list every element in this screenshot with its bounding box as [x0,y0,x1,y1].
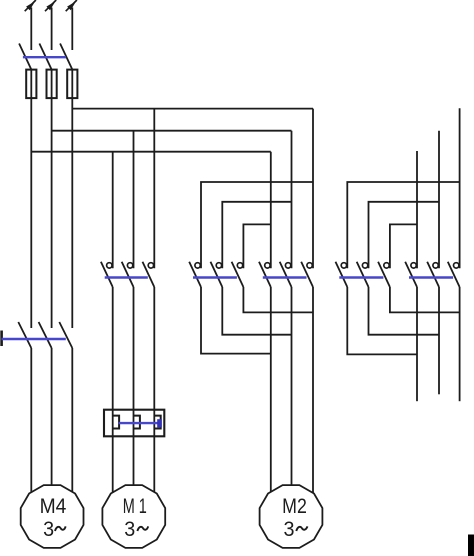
contactor contact K5 pole 1 [405,262,417,287]
thermal overload relay F4 box [104,410,164,437]
bus phase L1 horizontal [31,151,270,153]
contactor contact K2 pole 3 [232,262,244,287]
wire K5 feed stub 3 [459,108,461,268]
contactor contact K4 pole 3 [378,262,390,287]
supply arrow L1 [25,0,36,11]
disconnector QS0 pole 1 blade [19,44,31,70]
wire phase L2 vertical [51,70,53,328]
wire K2 feed bracket 1 [201,182,313,268]
wire L3 to switch QS0 [71,8,73,51]
contactor contact K2 pole 1 [189,262,201,287]
QS0 mechanical linkage [23,56,66,58]
wire F4 through 3 [153,410,155,437]
wire L2 to switch QS0 [51,8,53,51]
wire K2 feed bracket 2 [222,202,291,268]
wire F4 through 1 [112,410,114,437]
motor M2 label tilde [296,526,307,531]
contactor K3 linkage [263,276,307,278]
wire K1 output 2 [133,287,135,410]
bus phase L3 horizontal [72,108,313,110]
motor M2 circle [260,485,323,548]
overload F4 heater element 2 [134,416,140,429]
wire phase L1 vertical [30,70,32,328]
contactor contact K3 pole 1 [259,262,271,287]
motor M4 label tilde [55,526,66,531]
contactor contact K4 pole 1 [336,262,348,287]
wire L1 to switch QS0 [30,8,32,51]
wire K2 output bracket 1 [243,287,313,312]
fuse F2 [47,70,57,99]
contactor contact K5 pole 2 [427,262,439,287]
fuse F3 [67,70,77,99]
contactor contact K4 pole 2 [357,262,369,287]
contactor contact K1 pole 1 [101,262,113,287]
wire K4 feed bracket 3 [390,224,417,268]
wire K2 output bracket 3 [201,287,271,354]
QS1 mechanical linkage [2,338,66,340]
switch QS1 pole 2 blade [39,322,52,348]
wire phase L3 vertical [71,70,73,328]
contactor K1 linkage [105,276,148,278]
wire to motor M4 terminal 1 [30,348,32,500]
overload F4 heater element 1 [113,416,119,429]
svg-text:M 1: M 1 [123,495,147,518]
disconnector QS0 pole 2 blade [39,44,51,70]
wire K2 feed bracket 3 [243,224,270,268]
wire K4 output bracket 2 [369,287,440,335]
wire K5 output stub 1 [416,287,418,401]
contactor K4 linkage [339,276,383,278]
wire K2 output bracket 2 [222,287,291,335]
switch QS1 pole 3 blade [59,322,72,348]
contactor contact K5 pole 3 [448,262,460,287]
contactor contact K3 pole 2 [280,262,292,287]
wire to motor M1 terminal 2 [133,436,135,500]
wire to motor M2 terminal 2 [291,287,293,500]
fuse F1 [26,70,36,99]
contactor K5 linkage [409,276,453,278]
svg-text:M2: M2 [282,495,307,518]
wire F4 through 2 [133,410,135,437]
overload F4 linkage [119,422,162,424]
wire M1 feed drop 3 [153,109,155,269]
wire M1 feed drop 2 [133,131,135,269]
switch QS1 pole 1 blade [18,322,31,348]
wire to motor M4 terminal 2 [51,348,53,500]
QS1 handle [0,331,3,347]
supply arrow L2 [45,0,56,11]
wire K5 feed stub 2 [438,131,440,269]
overload F4 linkage end stop [157,419,162,427]
supply arrow L3 [66,0,77,11]
contactor contact K1 pole 2 [122,262,134,287]
cropped mark bottom right [468,535,474,556]
svg-text:3: 3 [124,518,135,541]
wire K4 output bracket 3 [347,287,417,354]
wire K4 feed bracket 2 [369,202,440,268]
wire to motor M4 terminal 3 [71,348,73,500]
svg-text:3: 3 [43,518,54,541]
wire K4 output bracket 1 [390,287,460,312]
wire K1 output 3 [153,287,155,410]
wire K5 feed stub 1 [416,151,418,268]
wire M2 feed vertical 2 [291,131,293,269]
wire M2 feed vertical 3 [312,109,314,269]
wire to motor M2 terminal 1 [270,287,272,500]
svg-text:M4: M4 [40,495,67,518]
wire to motor M1 terminal 1 [112,436,114,500]
disconnector QS0 pole 3 blade [60,44,72,70]
wire K4 feed bracket 1 [347,182,459,268]
contactor contact K3 pole 3 [301,262,313,287]
wire M2 feed vertical 1 [270,152,272,269]
wire to motor M2 terminal 3 [312,287,314,500]
overload F4 heater element 3 [154,416,160,429]
motor M1 label tilde [137,526,148,531]
contactor contact K2 pole 2 [211,262,223,287]
motor M1 circle [102,485,165,548]
wire M1 feed drop 1 [112,152,114,269]
wire to motor M1 terminal 3 [153,436,155,500]
bus phase L2 horizontal [52,130,292,132]
wire K1 output 1 [112,287,114,410]
contactor contact K1 pole 3 [143,262,155,287]
svg-text:3: 3 [284,518,295,541]
wire K5 output stub 3 [459,287,461,401]
motor M4 circle [21,485,84,548]
wire K5 output stub 2 [438,287,440,394]
contactor K2 linkage [193,276,237,278]
